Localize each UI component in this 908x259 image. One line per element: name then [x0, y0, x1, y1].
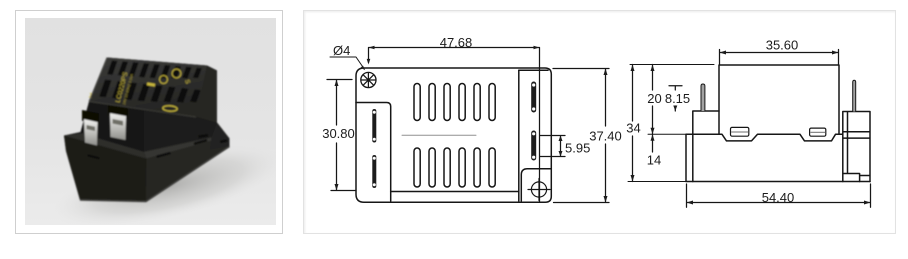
clip window 1 [731, 127, 749, 136]
screw hole top-left (with cross spokes) [361, 72, 376, 87]
base bottom extension (34/14) [628, 181, 686, 183]
side view body [719, 65, 839, 134]
top extension line (34/20) [630, 64, 714, 66]
bottom-right ear top fillet [521, 169, 551, 201]
dimension 35.60 [720, 50, 839, 66]
top vent slots row 1 [107, 61, 202, 79]
base rim top band [64, 133, 147, 159]
left pin [701, 84, 705, 111]
vent slots top row [414, 84, 495, 121]
svg-text:34: 34 [626, 120, 640, 135]
yellow cert marks [147, 69, 181, 85]
svg-text:30.80: 30.80 [322, 126, 355, 141]
top vent slots row 2 [99, 80, 201, 103]
yellow label text column on top face [87, 71, 191, 117]
ear slot [220, 139, 227, 143]
right flange slot B [531, 131, 536, 161]
svg-text:35.60: 35.60 [766, 38, 799, 53]
svg-text:5.95: 5.95 [565, 141, 590, 156]
left flange slot A [372, 109, 376, 143]
left shoulder block [693, 111, 719, 182]
left flange slot B [372, 155, 376, 188]
right flange top inner line [519, 69, 548, 71]
svg-text:8.15: 8.15 [665, 91, 690, 106]
right flange slot A [531, 82, 536, 113]
clip window 2 [810, 128, 826, 136]
dimension 30.80 [327, 80, 356, 191]
svg-text:47.68: 47.68 [440, 35, 473, 50]
dimension 37.40 [553, 69, 609, 203]
dimension 20 [651, 65, 655, 135]
right pin [853, 80, 856, 111]
cover right narrow face [196, 66, 217, 123]
cover front-left face (terminal side) [84, 102, 145, 152]
right terminal block [843, 112, 870, 182]
svg-text:Ø4: Ø4 [333, 43, 350, 58]
dimension 47.68 [367, 46, 540, 202]
svg-text:54.40: 54.40 [762, 190, 795, 205]
screw hole bottom-right (crosshair) [528, 179, 550, 201]
left flange inner edge / body left edge [356, 103, 391, 202]
bottom bevel highlight [80, 147, 230, 202]
vent slots bottom row [414, 148, 495, 187]
body bottom inner line [391, 191, 519, 193]
dimension 5.95 [540, 136, 565, 157]
terminal blade 2 [110, 114, 126, 141]
dimension 14 [651, 134, 655, 152]
left product photo box [15, 10, 283, 234]
module silhouette [64, 58, 230, 202]
top view outer outline [356, 68, 551, 202]
svg-text:20: 20 [647, 91, 661, 106]
terminal blade 1 [84, 120, 98, 146]
base notches [89, 141, 207, 159]
base top extension (20/14) [648, 133, 686, 135]
centre line [402, 134, 476, 136]
terminal socket openings [82, 110, 99, 124]
base front-left face [64, 136, 147, 202]
dimension 34 [631, 65, 635, 182]
yellow oval label on front face [163, 105, 178, 111]
base front-right face [146, 139, 230, 202]
right technical drawing box [303, 10, 896, 234]
cover front-right face [144, 111, 217, 152]
body right edge [518, 70, 520, 201]
photo backdrop [25, 18, 276, 225]
dimension 8.15 [669, 86, 682, 111]
dimension 54.40 [687, 184, 871, 207]
svg-text:37.40: 37.40 [589, 129, 622, 144]
top face edge highlights [89, 58, 107, 102]
base right mounting ear [210, 123, 230, 150]
top face [89, 58, 207, 118]
svg-text:14: 14 [647, 153, 661, 168]
floor shadow [46, 128, 290, 243]
side view base with clip notches [686, 134, 870, 181]
rim slot near ear [198, 134, 209, 139]
